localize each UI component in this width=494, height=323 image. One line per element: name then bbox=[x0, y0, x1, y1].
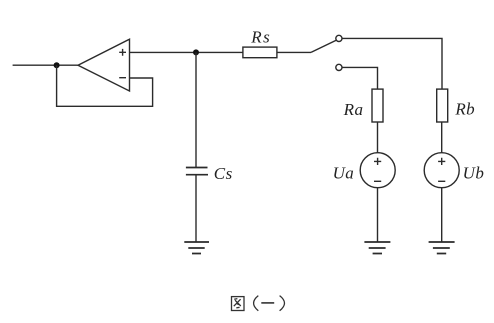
wire Rb to Ub bbox=[441, 122, 443, 153]
wire Ub to ground bbox=[441, 188, 443, 242]
svg-text:Ub: Ub bbox=[463, 163, 485, 182]
node B (capacitor junction) bbox=[193, 49, 199, 55]
switch contact bottom bbox=[336, 64, 342, 70]
svg-text:Rb: Rb bbox=[454, 100, 474, 119]
op-amp plus input mark bbox=[119, 49, 126, 56]
wire Ra to Ua bbox=[377, 122, 379, 153]
resistor Ra bbox=[372, 89, 383, 122]
wire noninverting input to Rs bbox=[130, 51, 243, 53]
svg-text:Rs: Rs bbox=[250, 27, 271, 46]
switch contact top bbox=[336, 35, 342, 41]
wire capacitor branch bbox=[195, 52, 197, 167]
Ua minus mark bbox=[374, 180, 381, 182]
wire Cs to ground bbox=[195, 175, 197, 242]
svg-text:Ra: Ra bbox=[343, 100, 364, 119]
caption open paren bbox=[254, 296, 259, 311]
caption glyph tu inner strokes bbox=[234, 299, 241, 308]
caption 图（一） bbox=[232, 296, 285, 311]
resistor Rs bbox=[243, 47, 277, 58]
wire feedback loop bbox=[57, 65, 153, 106]
op-amp U1 bbox=[78, 39, 130, 91]
svg-text:Cs: Cs bbox=[214, 164, 233, 183]
op-amp minus input mark bbox=[119, 77, 126, 79]
wire bottom contact to Ra bbox=[342, 67, 378, 89]
wire top contact to Rb bbox=[342, 38, 442, 89]
ground (Cs) bbox=[184, 242, 209, 254]
capacitor Cs bbox=[186, 168, 208, 175]
node A (op-amp output junction) bbox=[54, 62, 60, 68]
wire Rs to switch bbox=[277, 51, 311, 53]
caption glyph tu box bbox=[232, 297, 245, 311]
ground (Ua) bbox=[364, 242, 390, 254]
ground (Ub) bbox=[429, 242, 455, 254]
caption yi stroke bbox=[261, 302, 274, 304]
svg-text:Ua: Ua bbox=[333, 163, 355, 182]
wire Ua to ground bbox=[377, 188, 379, 242]
switch S1 blade bbox=[311, 40, 336, 52]
wire output left bbox=[13, 64, 78, 66]
caption close paren bbox=[280, 296, 285, 311]
Ub minus mark bbox=[438, 180, 445, 182]
Ub plus mark bbox=[438, 158, 445, 165]
resistor Rb bbox=[437, 89, 448, 122]
Ua plus mark bbox=[374, 158, 381, 165]
source Ua bbox=[360, 153, 395, 188]
source Ub bbox=[424, 153, 459, 188]
